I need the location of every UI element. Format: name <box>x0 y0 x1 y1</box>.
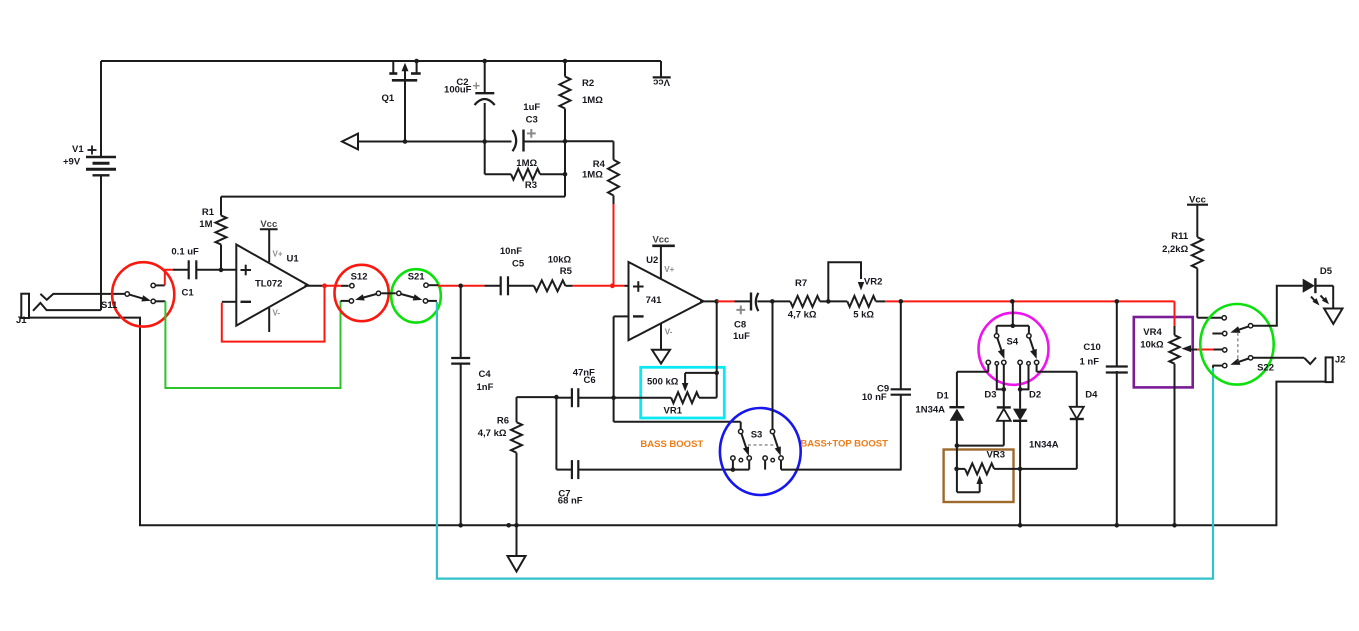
svg-text:C3: C3 <box>526 115 538 126</box>
svg-text:1MΩ: 1MΩ <box>582 95 603 106</box>
svg-text:Vcc: Vcc <box>652 234 669 245</box>
svg-text:VR2: VR2 <box>864 277 882 288</box>
svg-text:C10: C10 <box>1083 342 1100 353</box>
svg-text:1uF: 1uF <box>733 331 750 342</box>
svg-text:0.1 uF: 0.1 uF <box>171 247 199 258</box>
svg-text:4,7 kΩ: 4,7 kΩ <box>478 428 507 439</box>
svg-text:S22: S22 <box>1257 362 1274 373</box>
svg-text:V-: V- <box>665 327 673 336</box>
svg-text:C4: C4 <box>479 369 492 380</box>
svg-text:Vcc: Vcc <box>653 77 670 88</box>
svg-text:1uF: 1uF <box>523 102 540 113</box>
svg-text:+: + <box>473 78 481 93</box>
svg-text:1MΩ: 1MΩ <box>582 170 603 181</box>
svg-text:Q1: Q1 <box>382 93 395 104</box>
svg-text:S11: S11 <box>101 300 118 311</box>
svg-text:D4: D4 <box>1085 390 1098 401</box>
svg-text:VR3: VR3 <box>987 449 1005 460</box>
svg-text:+9V: +9V <box>63 157 81 168</box>
svg-text:1N34A: 1N34A <box>1029 440 1059 451</box>
svg-text:R4: R4 <box>593 159 606 170</box>
svg-text:5 kΩ: 5 kΩ <box>853 310 874 321</box>
svg-text:500 kΩ: 500 kΩ <box>647 376 679 387</box>
svg-text:V+: V+ <box>273 249 283 258</box>
svg-text:R5: R5 <box>560 266 573 277</box>
svg-text:R11: R11 <box>1171 231 1189 242</box>
svg-text:C8: C8 <box>734 319 746 330</box>
svg-text:V1: V1 <box>72 144 84 155</box>
svg-text:VR4: VR4 <box>1143 327 1162 338</box>
svg-text:S3: S3 <box>751 430 763 441</box>
svg-text:S12: S12 <box>351 271 368 282</box>
svg-text:J1: J1 <box>16 315 27 326</box>
svg-text:V-: V- <box>273 309 281 318</box>
svg-text:10kΩ: 10kΩ <box>548 255 572 266</box>
svg-text:C1: C1 <box>182 287 195 298</box>
svg-text:4,7 kΩ: 4,7 kΩ <box>788 310 817 321</box>
svg-text:10kΩ: 10kΩ <box>1140 340 1164 351</box>
svg-text:R6: R6 <box>497 415 509 426</box>
svg-text:Vcc: Vcc <box>260 219 277 230</box>
svg-text:S21: S21 <box>408 271 426 282</box>
svg-text:V+: V+ <box>664 265 674 274</box>
svg-text:C5: C5 <box>512 259 525 270</box>
svg-text:J2: J2 <box>1335 355 1346 366</box>
svg-text:D3: D3 <box>984 390 996 401</box>
svg-text:68 nF: 68 nF <box>558 495 583 506</box>
svg-text:R2: R2 <box>582 78 594 89</box>
svg-text:R3: R3 <box>525 180 537 191</box>
svg-text:BASS BOOST: BASS BOOST <box>640 439 703 450</box>
svg-text:1MΩ: 1MΩ <box>516 158 537 169</box>
svg-text:U2: U2 <box>646 255 658 266</box>
svg-text:D1: D1 <box>937 390 950 401</box>
svg-text:1 nF: 1 nF <box>1080 357 1100 368</box>
svg-text:D2: D2 <box>1029 390 1041 401</box>
svg-text:C6: C6 <box>584 375 596 386</box>
svg-text:10 nF: 10 nF <box>862 392 887 403</box>
svg-text:1M: 1M <box>199 219 212 230</box>
svg-text:U1: U1 <box>287 254 300 265</box>
svg-text:R7: R7 <box>795 278 807 289</box>
svg-text:TL072: TL072 <box>255 278 282 289</box>
svg-text:1nF: 1nF <box>477 382 494 393</box>
svg-text:741: 741 <box>646 295 663 306</box>
svg-text:100uF: 100uF <box>444 85 472 96</box>
svg-text:VR1: VR1 <box>664 405 683 416</box>
svg-text:BASS+TOP BOOST: BASS+TOP BOOST <box>800 438 888 449</box>
svg-text:D5: D5 <box>1320 266 1333 277</box>
svg-text:1N34A: 1N34A <box>915 405 945 416</box>
svg-text:10nF: 10nF <box>500 246 522 257</box>
svg-text:2,2kΩ: 2,2kΩ <box>1162 244 1188 255</box>
svg-text:R1: R1 <box>202 207 215 218</box>
svg-text:S4: S4 <box>1007 337 1019 348</box>
